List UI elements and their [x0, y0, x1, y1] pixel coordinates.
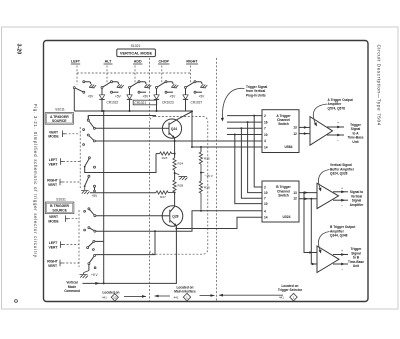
arrowhead on vertical mode command wire — [95, 282, 99, 285]
svg-text:Q574, Q578: Q574, Q578 — [328, 106, 346, 110]
svg-text:U584: U584 — [285, 145, 293, 149]
wire: pole A1 to Q24 base — [95, 127, 162, 129]
transistor Q28 — [162, 206, 183, 227]
svg-text:−: − — [341, 267, 343, 271]
dashed rounded enclosure around Q24/Q28 block — [150, 117, 208, 255]
svg-text:+: + — [341, 186, 343, 190]
svg-text:SOURCE: SOURCE — [52, 119, 67, 123]
ground below pole A4 — [81, 187, 90, 194]
svg-text:16: 16 — [264, 120, 268, 124]
svg-text:Circuit Description—Type 7504: Circuit Description—Type 7504 — [376, 45, 381, 126]
svg-text:CR1022: CR1022 — [107, 101, 119, 105]
svg-text:441: 441 — [174, 296, 179, 300]
svg-text:Switch: Switch — [278, 194, 289, 198]
svg-text:CR1023: CR1023 — [162, 101, 174, 105]
wire: pole A3 through R23 to Q24 emitter node — [85, 154, 156, 173]
wires: buffer outputs down to B trigger amp — [304, 193, 317, 253]
op-amp A trigger output amplifier — [310, 117, 333, 146]
mode switch section ADD — [129, 81, 152, 99]
wire: pole B2 to U324 pin 4 — [96, 211, 262, 232]
wire: node to Q28 collector — [174, 193, 176, 207]
svg-text:+: + — [341, 249, 343, 253]
switch pole B4 (right vert b) — [88, 254, 96, 270]
mode switch section CHOP — [156, 81, 179, 99]
IC U584 A Trigger Channel Switch — [262, 110, 299, 153]
diode CR1027 — [183, 88, 203, 111]
wire: U324 pin 13 output — [299, 192, 317, 194]
dashed drop ADD — [134, 66, 136, 84]
svg-text:−15 V: −15 V — [205, 174, 214, 178]
wire: Q28 emitter to U324 pin 14 — [176, 217, 262, 228]
dashed drop LEFT — [76, 66, 78, 85]
svg-text:S1011: S1011 — [55, 108, 65, 112]
resistor R29 — [199, 173, 210, 210]
mode switch section RIGHT — [185, 81, 208, 99]
svg-text:Q344, Q348: Q344, Q348 — [330, 234, 348, 238]
svg-text:2: 2 — [264, 185, 266, 189]
wire: U584 pin 13 output — [299, 126, 310, 128]
svg-text:RIGHT: RIGHT — [186, 60, 198, 64]
svg-text:S1031: S1031 — [56, 197, 66, 201]
svg-text:R27: R27 — [160, 195, 166, 199]
-15V tap label — [201, 172, 204, 174]
svg-text:+5V: +5V — [199, 94, 206, 98]
wire: U584 pin 10 stub — [227, 134, 262, 136]
svg-text:Unit: Unit — [352, 140, 359, 144]
svg-text:7: 7 — [264, 197, 266, 201]
switch pole A1 (vert mode a) — [83, 116, 96, 131]
svg-text:Amplifier: Amplifier — [350, 203, 365, 207]
mode switch section ALT — [101, 81, 124, 99]
svg-text:SOURCE: SOURCE — [52, 208, 67, 212]
node dots on diode bus — [101, 110, 103, 112]
wire: pole A4 through R27 to Q28 collector node — [90, 192, 156, 194]
schematic main border — [44, 41, 369, 302]
svg-text:CR1027: CR1027 — [191, 101, 203, 105]
svg-text:+5V: +5V — [88, 94, 95, 98]
registration mark dot bottom-left — [15, 300, 18, 303]
svg-text:S1021: S1021 — [131, 44, 141, 48]
svg-text:+5V: +5V — [143, 94, 150, 98]
svg-text:VERT: VERT — [48, 246, 58, 250]
resistor R23 — [156, 152, 175, 160]
svg-text:VERT: VERT — [48, 264, 58, 268]
svg-text:MODE: MODE — [48, 220, 59, 224]
riser pin16 to U324 pin16 — [248, 122, 262, 193]
switch pole B2 — [84, 227, 96, 233]
svg-text:13: 13 — [293, 191, 297, 195]
riser pin2 to U324 pin2 — [254, 116, 262, 187]
svg-text:10: 10 — [264, 191, 268, 195]
svg-text:ALT: ALT — [105, 60, 113, 64]
ground below pole B4 — [80, 271, 89, 279]
dashed link lines A source — [65, 133, 80, 135]
svg-text:R25: R25 — [204, 157, 210, 161]
svg-text:Main Interface: Main Interface — [174, 290, 196, 294]
wire: U584 pin 14 line — [192, 146, 262, 148]
svg-text:MODE: MODE — [48, 135, 59, 139]
wire: U584 pin 2 stub — [227, 115, 262, 117]
B TRIGGER SOURCE label box — [45, 202, 74, 214]
wire: U324 pin 12 output — [299, 198, 317, 200]
svg-text:Located on: Located on — [102, 290, 119, 294]
riser pin7 to U324 pin7 — [241, 128, 262, 198]
wire: U584 pin 16 stub — [227, 121, 262, 123]
svg-text:R24: R24 — [178, 162, 184, 166]
diode CR1021 (boxed label) — [127, 88, 157, 111]
switch pole B3 (left vert b) — [87, 240, 104, 250]
diode CR1023 — [154, 88, 174, 111]
svg-text:CHOP: CHOP — [159, 60, 170, 64]
svg-text:7: 7 — [264, 127, 266, 131]
svg-text:13: 13 — [293, 126, 297, 130]
switch pole A3 (left vert) — [84, 157, 96, 168]
dashed zone divider (trigger selector left) — [216, 58, 218, 301]
svg-text:441: 441 — [102, 296, 107, 300]
svg-text:VERT: VERT — [48, 183, 58, 187]
VERTICAL MODE label box — [117, 49, 156, 57]
diamond ref symbol left zone — [111, 294, 118, 301]
svg-text:LEFT: LEFT — [71, 60, 81, 64]
IC U324 B Trigger Channel Switch — [262, 181, 299, 222]
dashed link lines B source — [68, 218, 79, 220]
wire: diode output bus — [74, 110, 192, 112]
switch pole A4 (right vert) — [84, 175, 96, 192]
zone arrow middle-left — [155, 295, 171, 297]
op-amp B trigger output amplifier — [317, 246, 339, 273]
svg-text:VERT: VERT — [48, 162, 58, 166]
svg-text:VERTICAL MODE: VERTICAL MODE — [120, 51, 153, 56]
switch pole A2 — [83, 134, 96, 145]
op-amp vertical signal buffer amplifier — [317, 183, 339, 208]
svg-text:4: 4 — [264, 209, 266, 213]
svg-text:Q324, Q328: Q324, Q328 — [330, 172, 348, 176]
svg-text:3-20: 3-20 — [16, 44, 22, 55]
switch pole B1 (vert mode b) — [84, 208, 96, 217]
svg-text:−: − — [341, 204, 343, 208]
diamond ref symbol right zone — [290, 293, 297, 301]
wire: Q24 emitter drop — [174, 138, 176, 158]
dashed drop CHOP — [161, 66, 163, 84]
resistor R27 — [156, 191, 174, 199]
svg-text:+5V: +5V — [92, 194, 99, 198]
wire: +5V feed bus vertical — [103, 111, 105, 283]
wire: pole B4 riser — [96, 231, 155, 254]
riser pin10 to U324 pin10 — [235, 135, 262, 204]
svg-text:Command: Command — [64, 289, 80, 293]
svg-text:−: − — [337, 139, 339, 143]
svg-text:U324: U324 — [283, 215, 291, 219]
wire: U584 pin 12 output — [299, 133, 310, 135]
dashed drop RIGHT — [190, 66, 192, 84]
svg-text:Q28: Q28 — [172, 215, 178, 219]
svg-text:12: 12 — [293, 197, 297, 201]
svg-text:CR1021: CR1021 — [134, 101, 146, 105]
svg-text:Switch: Switch — [278, 122, 289, 126]
wire: pole B1 to Q28 base — [96, 215, 162, 217]
svg-text:+: + — [337, 121, 339, 125]
svg-text:10: 10 — [113, 296, 117, 300]
svg-text:+5V: +5V — [170, 94, 177, 98]
dashed drop ALT — [106, 66, 108, 84]
svg-text:12: 12 — [293, 132, 297, 136]
svg-text:Q24: Q24 — [171, 127, 177, 131]
svg-text:14: 14 — [264, 216, 268, 220]
mode switch section LEFT (lever down to +5V contact) — [73, 81, 96, 99]
wire: Q28 emitter drop and vertical-mode-command run — [83, 226, 177, 284]
output wires amp A — [327, 126, 344, 128]
svg-text:+5 V: +5 V — [91, 273, 99, 277]
svg-text:2: 2 — [264, 114, 266, 118]
zone arrow left to divider — [124, 295, 146, 297]
ground at R24/R28 node — [175, 173, 188, 180]
svg-text:4: 4 — [264, 139, 266, 143]
svg-text:Trigger Selector: Trigger Selector — [278, 288, 303, 292]
zone arrow right zone — [219, 294, 283, 296]
resistor R28 — [173, 173, 184, 193]
transistor Q24 — [162, 119, 181, 138]
svg-text:R28: R28 — [178, 184, 184, 188]
resistor R25 — [199, 146, 210, 173]
diode CR1022 — [99, 88, 118, 111]
svg-text:+5V: +5V — [115, 94, 122, 98]
svg-text:10: 10 — [264, 133, 268, 137]
dashed zone divider (main interface left) — [149, 58, 151, 118]
wire: Q24 collector to bus — [177, 112, 193, 120]
resistor R24 — [173, 158, 184, 175]
zone arrow middle-right — [200, 295, 215, 297]
wire: U584 pin 7 stub — [227, 127, 262, 129]
output wires amp B — [333, 254, 348, 256]
svg-text:Fig. 3-21. Simplified schemati: Fig. 3-21. Simplified schematic of trigg… — [33, 104, 38, 259]
dashed gang line linking mode switch sections — [77, 72, 191, 74]
svg-text:Unit: Unit — [353, 264, 360, 268]
A TRIGGER SOURCE label box — [45, 113, 73, 125]
svg-text:ADD: ADD — [134, 60, 142, 64]
svg-text:R29: R29 — [204, 186, 210, 190]
wire: pole A2 to U584 pin 4 — [95, 140, 262, 142]
svg-text:441: 441 — [279, 296, 284, 300]
svg-text:14: 14 — [264, 145, 268, 149]
diamond ref symbol middle zone — [183, 293, 190, 301]
svg-text:Plug-In Units: Plug-In Units — [246, 93, 266, 97]
svg-text:R23: R23 — [162, 156, 168, 160]
wire: collector node riser to pin14 line — [191, 111, 193, 147]
svg-text:10: 10 — [264, 202, 268, 206]
output wires buffer amp — [333, 191, 348, 193]
wire: second bus to switch pole — [88, 116, 156, 120]
